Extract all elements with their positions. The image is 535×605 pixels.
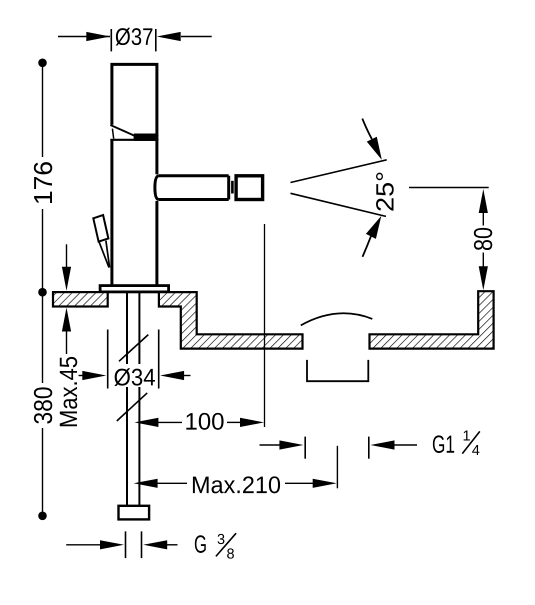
dimension G1 1/4 (drain thread): [260, 431, 480, 459]
supply pipe: [127, 292, 139, 506]
cap joint thick bar: [134, 135, 159, 141]
dimension Ø34 (hole): [79, 330, 191, 389]
drain centerline tick: [336, 446, 338, 489]
spray angle 25 deg: upper ray: [291, 160, 387, 183]
pipe end fitting: [119, 506, 150, 520]
label 176: [34, 162, 52, 203]
countertop left section (hatched): [53, 292, 108, 306]
base flange: [100, 286, 169, 292]
aerator: [236, 176, 263, 200]
pipe break slash lower: [117, 393, 147, 421]
label 25 deg: [376, 173, 394, 211]
lever knob: [93, 215, 108, 242]
angle leader arc lower: [363, 216, 382, 257]
cap seam sliver: [112, 129, 113, 139]
drain tailpiece U bracket: [307, 360, 368, 381]
dimension Max.210: [134, 476, 337, 493]
vertical dimension line 176 / 380 (left): [34, 59, 52, 521]
spout: [155, 176, 233, 200]
label 80: [474, 228, 492, 250]
angle leader arc upper: [362, 119, 382, 160]
dimension 100: [134, 413, 264, 430]
faucet body: [112, 139, 157, 286]
node dot top: [38, 59, 47, 68]
spray angle 25 deg: lower ray: [291, 193, 387, 216]
label G 3/8: [195, 535, 206, 553]
cap diagonal seam: [110, 125, 134, 136]
lever arm: [99, 241, 110, 268]
label G1 1/4: [433, 435, 454, 453]
pipe break slash upper: [119, 335, 148, 362]
spout outlet centerline: [264, 224, 266, 427]
dimension Max.45 (deck thickness): [60, 244, 77, 426]
label Ø34: [114, 368, 155, 386]
bidet bowl rim arc: [301, 313, 373, 325]
dimension G 3/8 (supply thread): [66, 531, 236, 558]
label Max.45: [60, 357, 77, 426]
label 380: [34, 387, 52, 423]
cap joint thin line: [110, 139, 158, 141]
faucet cap: [110, 64, 158, 141]
dimension Ø37 (top): [58, 28, 212, 52]
node dot middle: [38, 288, 47, 297]
label Max.210: [193, 476, 280, 493]
spout-aerator neck: [231, 181, 234, 194]
label 100: [186, 413, 223, 430]
node dot bottom: [38, 512, 47, 521]
dimension 80 (outlet height): [409, 188, 492, 291]
countertop middle section (hatched): [159, 292, 303, 349]
countertop right section (hatched): [370, 291, 494, 348]
